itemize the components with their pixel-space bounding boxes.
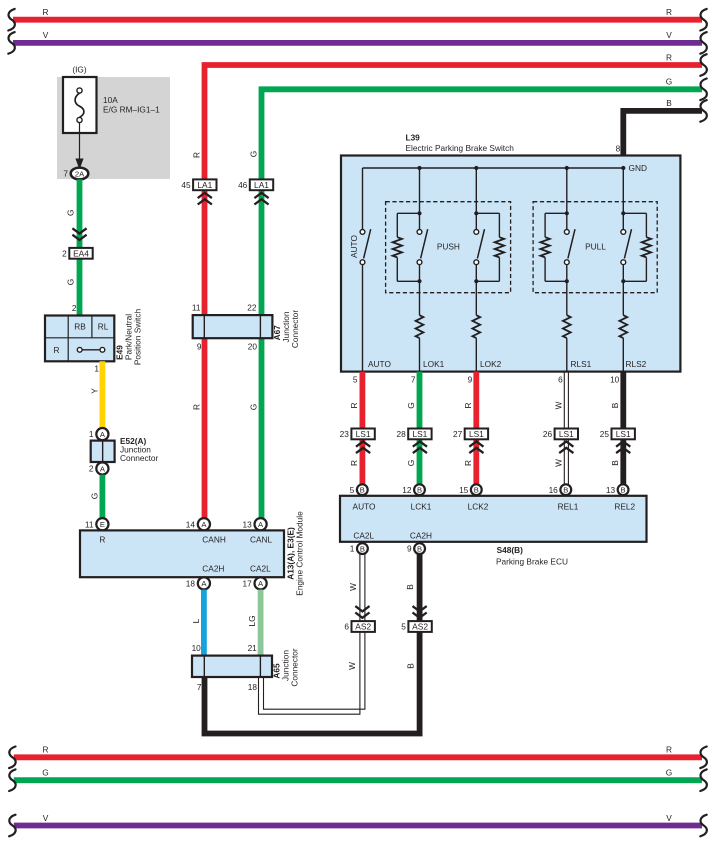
svg-text:13: 13: [606, 485, 616, 495]
wire G feeder to LA1/A67/ECM: [262, 89, 703, 518]
junction arrows into AS2 pin 5: [413, 613, 427, 618]
svg-text:B: B: [360, 486, 365, 495]
wire break squiggle (bottom G left): [9, 769, 16, 791]
svg-text:Position Switch: Position Switch: [132, 308, 142, 365]
wire AUTO branch: [362, 168, 364, 230]
ECM pin 13 connector A: [255, 518, 267, 530]
svg-text:AS2: AS2: [412, 622, 428, 632]
svg-text:LS1: LS1: [469, 429, 484, 439]
svg-text:B: B: [610, 402, 620, 408]
svg-text:W: W: [348, 583, 358, 591]
dashed group PUSH: [386, 202, 511, 293]
svg-text:B: B: [360, 544, 365, 553]
svg-text:CANH: CANH: [202, 535, 226, 545]
wire break squiggle (G feeder): [700, 79, 707, 101]
svg-text:5: 5: [350, 485, 355, 495]
svg-text:CA2H: CA2H: [410, 531, 432, 541]
ECM pin 18 connector A: [198, 577, 210, 589]
svg-text:G: G: [406, 460, 416, 466]
svg-text:G: G: [66, 209, 76, 215]
svg-text:Electric Parking Brake Switch: Electric Parking Brake Switch: [406, 143, 515, 153]
svg-text:RLS1: RLS1: [571, 359, 592, 369]
wire R feeder to LA1/A67/ECM: [205, 65, 703, 518]
svg-text:G: G: [90, 493, 100, 499]
connector LS1 pin 23: [351, 429, 374, 440]
wire break squiggle (bottom V left): [9, 815, 16, 837]
junction arrows into AS2 pin 6: [355, 613, 369, 618]
svg-text:S48(B): S48(B): [497, 545, 524, 555]
svg-text:27: 27: [453, 429, 463, 439]
svg-text:(IG): (IG): [72, 65, 87, 75]
connector LA1 pin 46: [250, 179, 273, 190]
svg-text:B: B: [406, 663, 416, 669]
svg-text:Y: Y: [90, 388, 100, 394]
svg-text:E: E: [100, 520, 105, 529]
wire R from L39 pin 9: [473, 372, 479, 485]
svg-text:CA2L: CA2L: [353, 531, 374, 541]
svg-text:R: R: [43, 745, 49, 755]
connector LA1 pin 45: [193, 179, 216, 190]
svg-text:LS1: LS1: [559, 429, 574, 439]
svg-text:G: G: [666, 77, 672, 87]
wire break squiggle (top R left): [8, 9, 15, 31]
svg-text:R: R: [54, 345, 60, 355]
connector AS2 pin 5: [408, 621, 431, 632]
svg-text:AUTO: AUTO: [349, 235, 359, 258]
S48 pin 15 connector B: [471, 484, 482, 495]
S48 pin 13 connector B: [618, 484, 629, 495]
component E49 Park/Neutral Position Switch: [45, 316, 114, 362]
svg-text:15: 15: [459, 485, 469, 495]
svg-text:2: 2: [72, 303, 77, 313]
ECM pin 11 connector E: [96, 518, 108, 530]
svg-text:PUSH: PUSH: [437, 242, 460, 252]
switch contact inside E49: [77, 347, 82, 352]
wire break squiggle (top R right): [700, 9, 707, 31]
svg-text:46: 46: [238, 180, 248, 190]
wire fuse to connector 2A: [79, 123, 81, 161]
connector LS1 pin 25: [612, 429, 635, 440]
svg-text:LS1: LS1: [616, 429, 631, 439]
svg-text:B: B: [610, 460, 620, 466]
svg-text:RLS2: RLS2: [626, 359, 647, 369]
wire B feeder to L39 pin 8: [623, 111, 702, 168]
S48 pin 12 connector B: [414, 484, 425, 495]
resistor (series): [619, 315, 627, 338]
wire W from S48 CA2L to A65 pin 18: [259, 554, 360, 714]
wire LG from ECM CA2L to A65 pin 21: [258, 590, 264, 656]
svg-text:22: 22: [247, 303, 257, 313]
svg-text:E/G RM–IG1–1: E/G RM–IG1–1: [103, 105, 160, 115]
node junction RLS2 on GND bus: [621, 166, 625, 170]
resistor (parallel): [540, 237, 549, 257]
svg-text:23: 23: [340, 429, 350, 439]
wire branch at x=476.3: [475, 168, 477, 230]
svg-text:GND: GND: [629, 163, 647, 173]
wire L from ECM CA2H to A65 pin 10: [201, 590, 207, 656]
S48 pin 9 connector B: [414, 543, 425, 554]
svg-text:R: R: [43, 7, 49, 17]
svg-text:R: R: [463, 460, 473, 466]
svg-text:17: 17: [242, 579, 252, 589]
dashed group PULL: [533, 202, 657, 293]
wire G from E52(A) to ECM pin 11: [100, 475, 106, 519]
component A13(A), E3(E) Engine Control Module: [80, 530, 284, 577]
svg-text:2: 2: [62, 248, 67, 258]
svg-text:14: 14: [186, 519, 196, 529]
svg-text:PULL: PULL: [585, 242, 606, 252]
S48 pin 5 connector B: [357, 484, 368, 495]
junction connector E52(A) body: [91, 441, 115, 462]
svg-text:V: V: [666, 30, 672, 40]
connector 2A pin 7: [71, 168, 89, 180]
S48 pin 1 connector B: [357, 543, 368, 554]
junction connector A65: [192, 656, 272, 677]
svg-text:LCK1: LCK1: [411, 501, 432, 511]
svg-text:10: 10: [610, 375, 620, 385]
resistor (series): [416, 315, 424, 338]
svg-text:25: 25: [600, 429, 610, 439]
resistor (parallel): [642, 237, 651, 257]
svg-text:1: 1: [94, 364, 99, 374]
node junction RLS1 on GND bus: [565, 166, 569, 170]
svg-text:G: G: [666, 768, 672, 778]
wire GND bus inside L39: [363, 167, 624, 169]
svg-text:Connector: Connector: [120, 453, 159, 463]
svg-text:R: R: [192, 404, 202, 410]
resistor (series): [472, 315, 480, 338]
svg-text:Connector: Connector: [290, 310, 300, 349]
svg-text:V: V: [43, 813, 49, 823]
wire branch at x=566.8: [566, 168, 568, 230]
svg-text:10A: 10A: [103, 95, 118, 105]
wire branch at x=419.5: [419, 168, 421, 230]
junction connector A67: [193, 315, 273, 338]
svg-text:B: B: [621, 486, 626, 495]
connector LS1 pin 28: [408, 429, 431, 440]
switch contact: [417, 230, 422, 235]
svg-text:Engine Control Module: Engine Control Module: [295, 511, 305, 596]
svg-text:B: B: [417, 486, 422, 495]
svg-text:11: 11: [85, 519, 94, 529]
wire R from L39 pin 5: [359, 372, 365, 485]
svg-text:LG: LG: [247, 615, 257, 626]
svg-text:Parking Brake ECU: Parking Brake ECU: [496, 556, 568, 566]
svg-text:7: 7: [197, 682, 202, 692]
svg-text:RB: RB: [74, 322, 86, 332]
wire bus V (top): [13, 40, 702, 46]
svg-text:B: B: [563, 486, 568, 495]
svg-text:18: 18: [186, 579, 196, 589]
wire G from 2A to E49 pin 2: [77, 179, 83, 315]
svg-text:CANL: CANL: [250, 535, 273, 545]
wire break squiggle (bottom R right): [700, 747, 707, 769]
svg-text:7: 7: [63, 168, 68, 178]
junction connector E52(A) pin 1: [96, 428, 108, 440]
connector AS2 pin 6: [352, 621, 375, 632]
svg-text:R: R: [666, 7, 672, 17]
junction connector E52(A) pin 2: [96, 462, 108, 474]
wire bus R (top): [13, 17, 702, 23]
svg-text:CA2H: CA2H: [202, 564, 224, 574]
connector LS1 pin 27: [465, 429, 488, 440]
component S48(B) Parking Brake ECU: [340, 496, 647, 542]
svg-text:LCK2: LCK2: [468, 501, 489, 511]
wire bus V (bottom): [14, 823, 702, 829]
svg-text:R: R: [463, 403, 473, 409]
svg-text:6: 6: [558, 375, 563, 385]
svg-text:28: 28: [396, 429, 406, 439]
svg-text:AUTO: AUTO: [353, 501, 376, 511]
svg-text:V: V: [43, 30, 49, 40]
svg-text:R: R: [99, 535, 105, 545]
svg-text:L39: L39: [406, 133, 421, 143]
svg-text:CA2L: CA2L: [250, 564, 271, 574]
svg-text:EA4: EA4: [73, 248, 89, 258]
S48 pin 16 connector B: [560, 484, 571, 495]
wire break squiggle (bottom R left): [9, 747, 16, 769]
wire bus G (bottom): [14, 777, 702, 783]
svg-text:R: R: [666, 745, 672, 755]
svg-text:1: 1: [89, 429, 94, 439]
svg-text:RL: RL: [98, 322, 109, 332]
svg-text:2A: 2A: [75, 169, 85, 178]
svg-text:G: G: [406, 402, 416, 408]
svg-text:G: G: [249, 404, 259, 410]
svg-text:8: 8: [616, 144, 621, 154]
node junction LOK2 on GND bus: [474, 166, 478, 170]
svg-text:REL1: REL1: [558, 501, 579, 511]
svg-text:12: 12: [402, 485, 412, 495]
resistor (parallel): [393, 237, 402, 257]
svg-text:11: 11: [192, 303, 201, 313]
svg-text:5: 5: [353, 375, 358, 385]
svg-text:10: 10: [192, 643, 202, 653]
svg-text:1: 1: [350, 544, 355, 554]
svg-text:LA1: LA1: [254, 180, 269, 190]
svg-text:B: B: [417, 544, 422, 553]
component L39 Electric Parking Brake Switch: [341, 156, 680, 372]
svg-text:W: W: [347, 662, 357, 670]
svg-text:REL2: REL2: [614, 501, 635, 511]
svg-text:7: 7: [411, 375, 416, 385]
svg-text:6: 6: [344, 622, 349, 632]
svg-text:R: R: [192, 152, 202, 158]
svg-text:LS1: LS1: [356, 429, 371, 439]
svg-text:L: L: [191, 618, 201, 623]
switch contact: [621, 230, 626, 235]
wire break squiggle (top V right): [700, 32, 707, 54]
switch AUTO: [360, 230, 365, 235]
fuse 10A E/G RM-IG1-1: [63, 77, 97, 133]
svg-text:26: 26: [543, 429, 553, 439]
resistor (parallel): [495, 237, 504, 257]
wire Y from E49 to E52(A): [100, 361, 106, 428]
svg-text:B: B: [666, 98, 672, 108]
svg-text:9: 9: [468, 375, 473, 385]
svg-text:LOK1: LOK1: [423, 359, 445, 369]
svg-text:LA1: LA1: [197, 180, 212, 190]
svg-text:R: R: [666, 52, 672, 62]
svg-text:45: 45: [181, 180, 191, 190]
svg-text:V: V: [666, 813, 672, 823]
wire break squiggle (top V left): [8, 32, 15, 54]
svg-text:B: B: [474, 486, 479, 495]
svg-text:LS1: LS1: [412, 429, 427, 439]
connector LS1 pin 26: [555, 429, 578, 440]
wire B from L39 pin 10: [620, 372, 626, 485]
node junction LOK1 on GND bus: [417, 166, 421, 170]
svg-text:20: 20: [248, 342, 258, 352]
connector EA4 pin 2: [69, 248, 92, 259]
fuse block background: [57, 77, 170, 179]
wire B from S48 CA2H to A65 pin 7: [205, 554, 420, 734]
svg-text:16: 16: [549, 485, 559, 495]
svg-text:G: G: [42, 768, 48, 778]
switch contact: [474, 230, 479, 235]
svg-text:21: 21: [248, 643, 258, 653]
svg-text:R: R: [349, 460, 359, 466]
wire break squiggle (B feeder): [700, 100, 707, 122]
svg-text:AUTO: AUTO: [368, 359, 391, 369]
svg-text:G: G: [66, 279, 76, 285]
svg-text:5: 5: [401, 622, 406, 632]
svg-text:9: 9: [407, 544, 412, 554]
svg-text:AS2: AS2: [355, 622, 371, 632]
ECM pin 17 connector A: [255, 577, 267, 589]
wire W from L39 pin 6: [563, 372, 565, 485]
ECM pin 14 connector A: [198, 518, 210, 530]
svg-text:B: B: [405, 584, 415, 590]
svg-text:G: G: [249, 151, 259, 157]
wire break squiggle (R feeder): [700, 54, 707, 76]
svg-text:13: 13: [242, 519, 252, 529]
svg-text:LOK2: LOK2: [480, 359, 502, 369]
wire break squiggle (bottom G right): [700, 769, 707, 791]
wire break squiggle (bottom V right): [700, 815, 707, 837]
wire bus R (bottom): [14, 754, 702, 760]
svg-text:18: 18: [248, 682, 258, 692]
svg-text:W: W: [553, 459, 563, 467]
svg-text:Connector: Connector: [290, 648, 300, 687]
svg-text:W: W: [553, 401, 563, 409]
svg-text:9: 9: [197, 342, 202, 352]
junction arrows into EA4: [72, 235, 86, 240]
switch contact: [564, 230, 569, 235]
wire G from L39 pin 7: [417, 372, 423, 485]
svg-text:R: R: [349, 403, 359, 409]
wire branch at x=623.3: [622, 168, 624, 230]
resistor (series): [563, 315, 571, 338]
svg-text:2: 2: [89, 464, 94, 474]
